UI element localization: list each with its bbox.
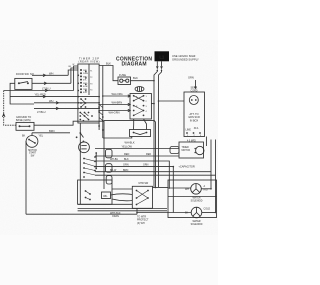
selector feed bus 2 xyxy=(102,66,104,139)
svg-text:WH: WH xyxy=(49,99,53,103)
wire door switch to left rail xyxy=(10,83,34,104)
svg-text:L1: L1 xyxy=(159,55,165,60)
wire hot solenoid right xyxy=(201,188,211,190)
outlet face xyxy=(189,96,198,105)
wire door sw out xyxy=(32,68,78,85)
svg-text:30 A: 30 A xyxy=(194,127,199,130)
svg-text:5RD: 5RD xyxy=(83,83,88,85)
svg-text:3BU: 3BU xyxy=(83,76,88,78)
motor switch box xyxy=(132,182,152,208)
right rail below timer xyxy=(103,121,105,189)
timer motor box xyxy=(179,140,204,158)
wire gray long xyxy=(95,174,216,176)
wire black xyxy=(95,161,169,188)
label GRN ground lead xyxy=(188,76,197,90)
wire plug right prong down xyxy=(159,70,162,102)
wire hot solenoid left xyxy=(169,187,190,189)
svg-text:TIMER: TIMER xyxy=(182,147,189,149)
water temp selector switch xyxy=(130,94,151,120)
valve divider xyxy=(168,196,217,198)
motor terminal block box xyxy=(78,180,112,204)
svg-text:LT BLU: LT BLU xyxy=(37,110,46,114)
fuse F1 xyxy=(118,73,131,85)
svg-text:DOOR SW. NO: DOOR SW. NO xyxy=(16,72,34,76)
wire cbl to motor sw xyxy=(111,194,133,195)
wire rect b to motor sw xyxy=(112,199,132,201)
CBL connector box xyxy=(102,192,111,199)
svg-text:ORN: ORN xyxy=(143,164,149,167)
svg-text:RED: RED xyxy=(146,153,151,156)
bottom bus wire xyxy=(26,213,137,215)
wire BLK fuse to timer top xyxy=(99,62,118,81)
motor winding circle xyxy=(79,142,90,153)
wire motor sw right xyxy=(153,187,169,189)
svg-text:+CAPACITOR: +CAPACITOR xyxy=(178,165,195,169)
wire cold solenoid left xyxy=(137,212,191,214)
svg-text:BASE (GRN): BASE (GRN) xyxy=(16,119,31,122)
buzzer emblem xyxy=(135,87,144,92)
svg-text:YEL-RED: YEL-RED xyxy=(35,92,46,96)
svg-text:WH-BU: WH-BU xyxy=(110,158,118,161)
timer motor xyxy=(196,146,204,154)
svg-text:(REAR VIEW): (REAR VIEW) xyxy=(79,61,100,64)
wire LT BLU row2 xyxy=(34,107,99,114)
svg-text:WH: WH xyxy=(49,71,53,75)
timer contact links xyxy=(80,99,88,120)
svg-text:MTR SW: MTR SW xyxy=(139,182,149,185)
svg-text:ORAN: ORAN xyxy=(112,215,119,218)
wire neutral vertical xyxy=(158,101,160,187)
timer box xyxy=(78,64,99,123)
svg-text:SOLENOID: SOLENOID xyxy=(191,200,203,202)
svg-text:LT BLU: LT BLU xyxy=(42,86,51,90)
wire WH-GRN to selector xyxy=(99,109,130,114)
wire WH row2 xyxy=(34,99,99,104)
selector feed bus 1 xyxy=(98,123,100,130)
terminal block contacts xyxy=(85,190,91,200)
wire yellow xyxy=(95,148,179,150)
power cord plug prongs xyxy=(156,61,163,71)
wire selector bottom to pressure switch xyxy=(133,119,135,130)
svg-text:WH-ORG: WH-ORG xyxy=(112,92,123,96)
svg-text:WATER: WATER xyxy=(192,196,200,199)
svg-text:BK-W: BK-W xyxy=(110,169,117,172)
timer internal rail xyxy=(88,64,90,95)
svg-text:YELLOW: YELLOW xyxy=(122,146,133,149)
water valve assembly box xyxy=(168,180,217,218)
svg-text:(3) WH: (3) WH xyxy=(137,222,145,225)
ground to base label xyxy=(16,116,31,122)
noise filter / cord box xyxy=(184,92,205,137)
wire motor sw bottom xyxy=(136,208,138,214)
timer left edge terminals xyxy=(69,64,80,109)
svg-text:SOLENOID: SOLENOID xyxy=(191,224,203,226)
svg-text:WH-BLK: WH-BLK xyxy=(125,141,135,145)
motor contact bar xyxy=(95,152,97,169)
motor contact column xyxy=(83,156,96,178)
svg-text:USE 120VAC 60HZ: USE 120VAC 60HZ xyxy=(172,54,196,58)
svg-text:START: START xyxy=(29,152,37,155)
svg-text:COLD: COLD xyxy=(204,208,211,211)
svg-text:BK: BK xyxy=(22,134,26,137)
ground wire with arrow xyxy=(2,91,16,126)
timer terminals cluster bottom xyxy=(79,112,93,121)
label below motor switch xyxy=(137,216,149,225)
wire WH-BLK to pressure switch xyxy=(103,137,135,145)
note text right of plate xyxy=(172,54,199,61)
capacitor value label xyxy=(187,127,202,137)
wire orange xyxy=(95,167,173,213)
svg-text:GRN: GRN xyxy=(188,76,194,80)
timer terminals column xyxy=(80,69,93,94)
wire WH-BRN to selector xyxy=(99,101,130,106)
svg-text:DIAGRAM: DIAGRAM xyxy=(122,61,147,67)
svg-text:1BK: 1BK xyxy=(83,70,88,72)
wire WH-ORG to selector xyxy=(103,92,130,97)
wire into cord box xyxy=(159,100,185,102)
svg-text:LINE: LINE xyxy=(186,129,192,132)
svg-text:BRN: BRN xyxy=(49,129,55,133)
door switch S1 xyxy=(15,72,34,90)
wire selector bottom 2 xyxy=(144,119,147,130)
svg-text:BLK: BLK xyxy=(133,76,138,80)
node L1 vertical bus xyxy=(153,81,155,188)
svg-text:MOTOR: MOTOR xyxy=(28,150,37,152)
wire motor start down to bottom bus xyxy=(25,141,28,214)
svg-text:IN BOX: IN BOX xyxy=(190,119,199,122)
label timer xyxy=(79,57,100,64)
svg-text:WATER: WATER xyxy=(192,220,200,223)
pin numbers selector xyxy=(136,96,148,114)
svg-text:WH-GRN: WH-GRN xyxy=(109,111,120,115)
wire LT BLU row xyxy=(4,66,78,92)
wire BRN motor start to right xyxy=(32,129,70,133)
power label plate L1 xyxy=(155,51,170,61)
cord box terminals xyxy=(186,132,201,134)
wire motor sw left xyxy=(112,188,132,190)
svg-text:7BR: 7BR xyxy=(83,89,88,91)
wire selector to L1 bus xyxy=(151,103,154,105)
harness wires timer to right xyxy=(95,137,216,213)
junction dots xyxy=(76,80,217,213)
bottom harness bus xyxy=(78,204,167,218)
motor contact links xyxy=(84,159,95,176)
pressure switch xyxy=(130,130,151,137)
svg-text:YEL: YEL xyxy=(39,134,44,137)
label service cord xyxy=(190,87,197,93)
hot water solenoid xyxy=(191,184,202,195)
svg-text:WH-BRN: WH-BRN xyxy=(112,101,123,105)
motor start switch M1 xyxy=(26,133,38,148)
svg-text:6OR: 6OR xyxy=(83,86,88,88)
wire YEL-RED row xyxy=(10,92,99,98)
svg-text:RED: RED xyxy=(124,153,129,156)
wire cold solenoid right xyxy=(202,212,216,214)
left rail below timer xyxy=(79,123,81,204)
svg-text:ORN: ORN xyxy=(123,164,129,167)
svg-text:BRN: BRN xyxy=(123,169,128,172)
svg-text:GROUNDED SUPPLY: GROUNDED SUPPLY xyxy=(172,58,199,62)
cord box text xyxy=(186,113,200,132)
title CONNECTION DIAGRAM xyxy=(116,56,152,67)
wire red xyxy=(95,155,179,157)
selector contacts xyxy=(133,95,145,116)
rail switch contact xyxy=(79,132,83,137)
wire brown long xyxy=(95,171,211,173)
connector shells xyxy=(106,149,113,184)
svg-text:BLK: BLK xyxy=(124,158,129,161)
svg-text:FUSE: FUSE xyxy=(119,73,126,77)
cold water solenoid xyxy=(191,207,202,218)
svg-text:MOTOR: MOTOR xyxy=(182,150,191,152)
wire plug left prong to L1 bus xyxy=(154,70,157,81)
wire BLK fuse to L1 bus xyxy=(131,76,155,81)
timer motor connector shell xyxy=(170,147,179,154)
wire timer to pressure switch region xyxy=(99,120,104,122)
bus cross links xyxy=(99,105,103,121)
svg-text:2WH: 2WH xyxy=(83,73,88,75)
svg-text:BK: BK xyxy=(185,212,189,215)
ground strap box xyxy=(16,122,34,130)
selector contact links xyxy=(134,96,144,116)
svg-text:BLK: BLK xyxy=(106,62,111,66)
svg-text:CBL: CBL xyxy=(103,196,108,198)
svg-text:8GY: 8GY xyxy=(83,92,88,94)
wire ground box right xyxy=(34,121,99,125)
timer terminals cluster mid xyxy=(80,98,86,108)
bus terminals xyxy=(98,106,104,131)
wire WH row1 xyxy=(32,70,78,77)
